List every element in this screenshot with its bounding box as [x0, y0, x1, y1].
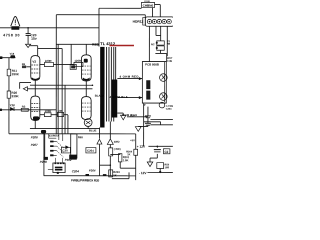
svg-text:C204: C204 — [87, 149, 94, 153]
svg-text:4 OHM BLA: 4 OHM BLA — [109, 95, 128, 99]
svg-text:3WD: 3WD — [114, 140, 120, 144]
svg-text:C30: C30 — [63, 149, 69, 153]
svg-text:120R: 120R — [74, 59, 81, 63]
svg-text:10R: 10R — [58, 109, 63, 113]
svg-text:R3: R3 — [22, 105, 26, 109]
svg-text:R68: R68 — [78, 135, 83, 139]
svg-text:BLUE: BLUE — [89, 128, 97, 132]
svg-text:1K: 1K — [113, 173, 116, 177]
svg-text:NC: NC — [151, 43, 155, 46]
svg-text:+ 12V: + 12V — [137, 145, 146, 149]
svg-text:FWBL/PWRBOX R20: FWBL/PWRBOX R20 — [71, 178, 99, 182]
svg-text:3B: 3B — [22, 62, 25, 66]
svg-text:BLACK: BLACK — [95, 94, 105, 98]
svg-text:P304: P304 — [89, 169, 96, 173]
svg-text:4 OHM RED: 4 OHM RED — [120, 75, 139, 79]
svg-text:220R: 220R — [45, 59, 52, 63]
svg-text:B3 R67A: B3 R67A — [48, 134, 59, 138]
svg-text:P207: P207 — [31, 143, 38, 147]
svg-text:1.5K: 1.5K — [123, 158, 129, 162]
svg-text:CHBN6: CHBN6 — [143, 4, 154, 8]
svg-text:- 12V: - 12V — [139, 171, 147, 175]
svg-text:P302: P302 — [65, 158, 72, 162]
svg-text:V2: V2 — [32, 60, 36, 64]
svg-text:1K: 1K — [127, 153, 130, 156]
svg-text:10R: 10R — [165, 166, 170, 169]
svg-text:330K: 330K — [12, 94, 20, 98]
svg-text:V18: V18 — [10, 52, 15, 56]
svg-text:(+5W): (+5W) — [114, 148, 121, 151]
svg-text:P206: P206 — [31, 135, 38, 139]
svg-text:15v: 15v — [31, 37, 37, 41]
svg-text:CHN: CHN — [167, 60, 172, 63]
svg-text:PCB 808B: PCB 808B — [145, 62, 159, 66]
svg-text:C204: C204 — [72, 169, 80, 173]
svg-text:RED: RED — [92, 43, 99, 47]
svg-text:C2: C2 — [165, 150, 169, 154]
svg-text:C204: C204 — [166, 108, 172, 111]
svg-text:BLA: BLA — [130, 113, 135, 117]
svg-text:P208: P208 — [40, 160, 47, 164]
svg-text:HDR12: HDR12 — [133, 20, 144, 24]
svg-text:330K: 330K — [12, 72, 20, 76]
svg-text:4758 30: 4758 30 — [3, 33, 20, 37]
svg-text:+5V: +5V — [130, 138, 135, 142]
svg-text:Y38: Y38 — [10, 103, 15, 107]
svg-text:100R: 100R — [45, 109, 52, 113]
